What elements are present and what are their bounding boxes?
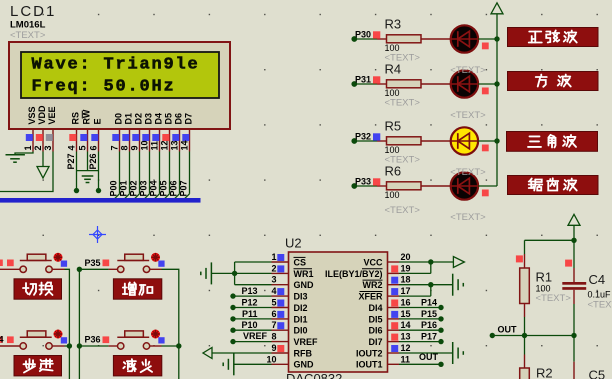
svg-text:P34: P34: [0, 335, 4, 345]
svg-text:D7: D7: [184, 113, 194, 125]
svg-text:D6: D6: [174, 113, 184, 125]
svg-text:2: 2: [271, 263, 276, 273]
svg-text:P01: P01: [119, 180, 129, 196]
svg-text:C4: C4: [589, 272, 606, 287]
svg-text:WR1: WR1: [294, 269, 314, 279]
svg-text:14: 14: [180, 140, 190, 150]
svg-text:<TEXT>: <TEXT>: [450, 167, 486, 178]
svg-text:4: 4: [271, 286, 276, 296]
svg-text:P05: P05: [159, 180, 169, 196]
svg-text:15: 15: [401, 309, 411, 319]
svg-text:R2: R2: [536, 366, 553, 379]
svg-text:7: 7: [110, 145, 120, 150]
svg-text:12: 12: [160, 140, 170, 150]
svg-text:P31: P31: [355, 75, 371, 85]
svg-text:P07: P07: [179, 180, 189, 196]
svg-text:P04: P04: [149, 180, 159, 196]
svg-text:GND: GND: [294, 280, 315, 290]
svg-text:<TEXT>: <TEXT>: [588, 300, 612, 311]
svg-text:P26: P26: [88, 153, 98, 169]
svg-text:D3: D3: [144, 113, 154, 125]
svg-text:RW: RW: [82, 109, 92, 124]
svg-text:14: 14: [401, 320, 411, 330]
svg-text:P16: P16: [421, 320, 437, 330]
svg-text:P02: P02: [129, 180, 139, 196]
svg-text:R3: R3: [385, 17, 402, 32]
svg-text:10: 10: [266, 354, 276, 364]
svg-text:R1: R1: [536, 270, 553, 285]
svg-text:P32: P32: [355, 132, 371, 142]
svg-text:<TEXT>: <TEXT>: [10, 30, 46, 41]
svg-text:5: 5: [78, 145, 88, 150]
svg-text:P17: P17: [421, 332, 437, 342]
svg-text:P30: P30: [355, 30, 371, 40]
svg-text:P03: P03: [139, 180, 149, 196]
svg-text:13: 13: [170, 140, 180, 150]
svg-text:P14: P14: [421, 298, 437, 308]
svg-text:R5: R5: [385, 119, 402, 134]
svg-text:3: 3: [271, 275, 276, 285]
svg-text:R6: R6: [385, 164, 402, 179]
svg-text:DAC0832: DAC0832: [286, 371, 342, 379]
svg-text:P15: P15: [421, 309, 437, 319]
svg-text:6: 6: [89, 145, 99, 150]
svg-text:DI4: DI4: [368, 303, 382, 313]
svg-text:OUT: OUT: [419, 352, 439, 362]
svg-text:P10: P10: [241, 320, 257, 330]
svg-text:20: 20: [401, 252, 411, 262]
svg-text:DI3: DI3: [294, 292, 308, 302]
svg-text:D1: D1: [124, 113, 134, 125]
svg-text:CS: CS: [294, 257, 307, 267]
svg-text:4: 4: [67, 145, 77, 150]
svg-text:100: 100: [385, 88, 400, 98]
svg-text:<TEXT>: <TEXT>: [385, 205, 421, 216]
svg-text:11: 11: [401, 354, 411, 364]
svg-text:VSS: VSS: [27, 106, 37, 124]
svg-text:IOUT1: IOUT1: [356, 360, 383, 370]
svg-text:VREF: VREF: [294, 337, 319, 347]
svg-text:13: 13: [401, 332, 411, 342]
svg-text:D4: D4: [154, 113, 164, 125]
svg-text:C5: C5: [589, 368, 606, 379]
svg-text:DI7: DI7: [368, 337, 382, 347]
svg-text:VEE: VEE: [47, 106, 57, 124]
svg-text:18: 18: [401, 275, 411, 285]
svg-text:VREF: VREF: [243, 331, 268, 341]
svg-text:6: 6: [271, 309, 276, 319]
svg-text:11: 11: [150, 141, 160, 151]
svg-text:7: 7: [271, 320, 276, 330]
svg-text:9: 9: [130, 145, 140, 150]
svg-text:8: 8: [120, 145, 130, 150]
svg-text:XFER: XFER: [358, 292, 383, 302]
svg-text:LCD1: LCD1: [10, 3, 56, 20]
svg-text:<TEXT>: <TEXT>: [450, 212, 486, 223]
svg-text:DI0: DI0: [294, 326, 308, 336]
svg-text:P06: P06: [169, 180, 179, 196]
svg-text:Freq: 50.0Hz: Freq: 50.0Hz: [32, 77, 176, 96]
svg-text:<TEXT>: <TEXT>: [450, 110, 486, 121]
svg-text:DI5: DI5: [368, 314, 382, 324]
svg-text:<TEXT>: <TEXT>: [385, 98, 421, 109]
svg-text:16: 16: [401, 298, 411, 308]
svg-text:DI1: DI1: [294, 314, 308, 324]
svg-text:VCC: VCC: [363, 257, 383, 267]
svg-text:RS: RS: [71, 112, 81, 125]
svg-text:RFB: RFB: [294, 348, 313, 358]
svg-text:GND: GND: [294, 360, 315, 370]
svg-text:D0: D0: [114, 113, 124, 125]
svg-text:P36: P36: [85, 335, 101, 345]
svg-text:IOUT2: IOUT2: [356, 348, 383, 358]
svg-text:D2: D2: [134, 113, 144, 125]
svg-text:100: 100: [385, 190, 400, 200]
svg-text:DI2: DI2: [294, 303, 308, 313]
svg-text:100: 100: [385, 145, 400, 155]
svg-text:<TEXT>: <TEXT>: [450, 65, 486, 76]
svg-text:LM016L: LM016L: [10, 20, 46, 31]
svg-text:D5: D5: [164, 113, 174, 125]
svg-text:12: 12: [401, 343, 411, 353]
svg-text:P35: P35: [85, 258, 101, 268]
svg-text:R4: R4: [385, 62, 402, 77]
svg-text:3: 3: [43, 145, 53, 150]
svg-text:17: 17: [401, 286, 411, 296]
svg-text:100: 100: [385, 43, 400, 53]
svg-text:U2: U2: [285, 236, 302, 251]
svg-text:<TEXT>: <TEXT>: [536, 293, 572, 304]
svg-text:5: 5: [271, 298, 276, 308]
svg-text:ILE(BY1/BY2): ILE(BY1/BY2): [325, 269, 383, 279]
svg-text:100: 100: [536, 284, 551, 294]
svg-text:1: 1: [271, 252, 276, 262]
svg-text:P00: P00: [109, 180, 119, 196]
svg-text:OUT: OUT: [498, 325, 518, 335]
svg-text:P27: P27: [66, 153, 76, 169]
svg-text:E: E: [93, 118, 103, 124]
svg-text:VDD: VDD: [37, 105, 47, 125]
svg-text:P11: P11: [242, 309, 258, 319]
svg-text:8: 8: [271, 332, 276, 342]
svg-text:WR2: WR2: [363, 280, 383, 290]
svg-text:P13: P13: [241, 286, 257, 296]
svg-text:Wave: Trian9le: Wave: Trian9le: [32, 55, 200, 74]
svg-text:P12: P12: [241, 298, 257, 308]
svg-text:9: 9: [271, 343, 276, 353]
svg-text:DI6: DI6: [368, 326, 382, 336]
svg-text:10: 10: [140, 140, 150, 150]
svg-text:19: 19: [401, 263, 411, 273]
svg-text:P33: P33: [355, 177, 371, 187]
svg-text:1: 1: [23, 145, 33, 150]
svg-text:0.1uF: 0.1uF: [588, 290, 612, 300]
svg-text:2: 2: [33, 145, 43, 150]
